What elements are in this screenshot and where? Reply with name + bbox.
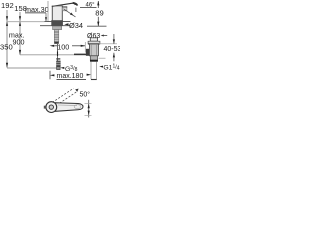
svg-text:100: 100 [57, 43, 69, 52]
svg-text:max.180: max.180 [57, 73, 84, 80]
svg-text:350: 350 [0, 43, 13, 52]
svg-text:900: 900 [13, 38, 25, 47]
svg-text:192: 192 [1, 1, 14, 10]
svg-text:89: 89 [95, 9, 103, 18]
svg-text:Ø34: Ø34 [69, 21, 83, 30]
svg-text:40-53: 40-53 [104, 46, 121, 53]
svg-text:50°: 50° [80, 91, 91, 99]
svg-text:G11/4: G11/4 [103, 64, 119, 72]
